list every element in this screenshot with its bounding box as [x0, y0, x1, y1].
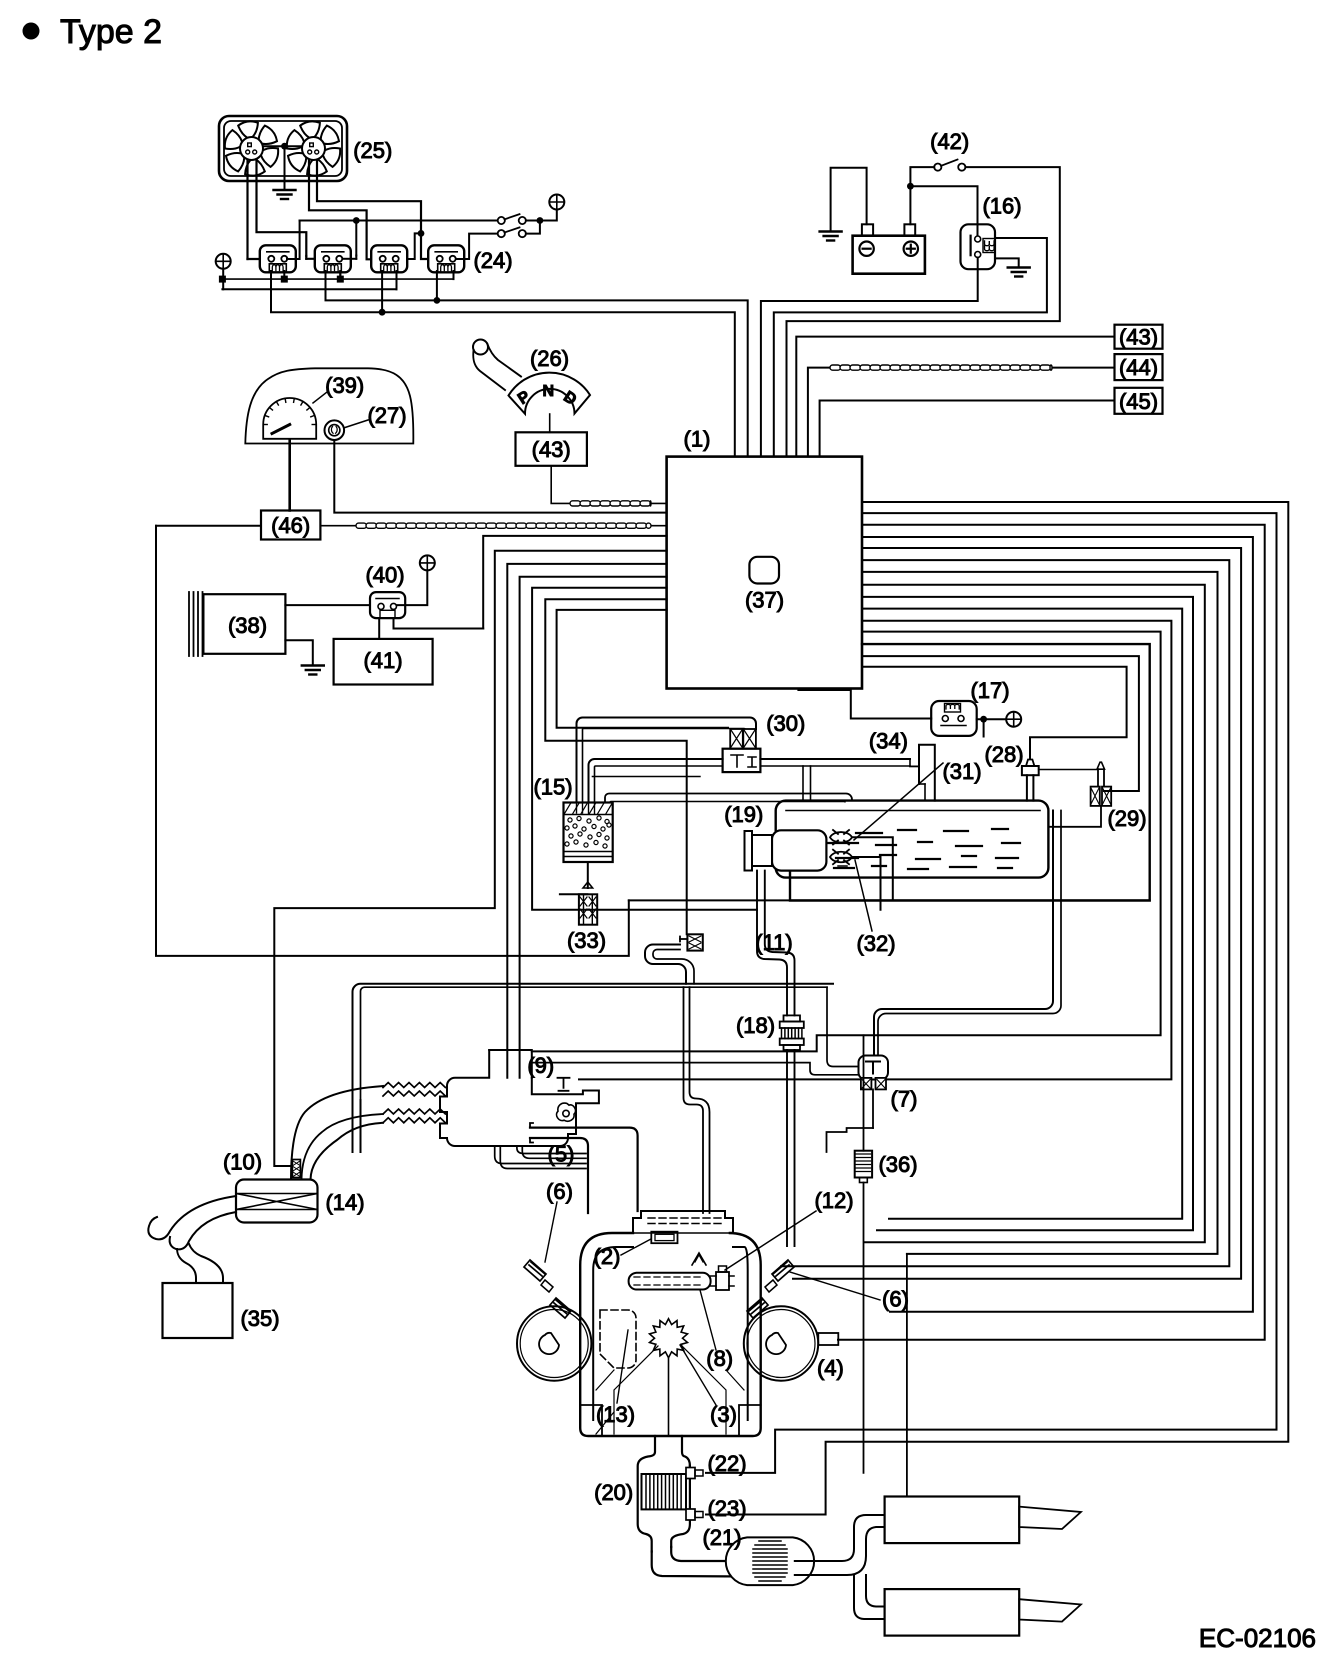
switch blade upper — [505, 214, 520, 219]
wire ECU to air cleaner a — [507, 564, 666, 1078]
wire fan C — [309, 160, 380, 259]
IAC T symbol — [558, 1078, 570, 1091]
throttle duct (5) and downpipe — [576, 1128, 638, 1211]
fuel pump outlet pipe to filter 18 — [757, 871, 787, 1016]
junction square a — [219, 276, 226, 283]
small gauge (27) — [325, 420, 345, 440]
svg-text:(11): (11) — [755, 930, 793, 955]
relay 2 — [315, 245, 351, 272]
connector top right — [549, 195, 564, 210]
wire relay17 to connector — [977, 718, 1006, 720]
svg-text:(40): (40) — [365, 563, 404, 588]
relay 16 pin top — [975, 236, 981, 242]
svg-text:(2): (2) — [594, 1244, 621, 1269]
fuel level dashes — [806, 829, 1020, 869]
engine inner runner left — [593, 1247, 748, 1420]
left cam pulley — [517, 1306, 591, 1380]
wire connector drop — [222, 269, 224, 289]
switch blade lower — [505, 227, 520, 232]
junction fan D — [418, 230, 425, 237]
wire 36 up — [863, 1035, 865, 1150]
bus line 4 y=312.2 — [271, 271, 735, 457]
svg-text:(32): (32) — [856, 931, 895, 956]
switch contact pair lower — [498, 230, 505, 237]
wire relay16 coil right to ECU — [774, 238, 1047, 457]
radiator fan assembly (25) — [219, 116, 347, 181]
wire fan ground drop — [284, 146, 286, 189]
wire ECU wrap to solenoid 28 — [862, 667, 1127, 759]
relay 4 — [428, 245, 464, 272]
svg-text:(44): (44) — [1119, 355, 1158, 380]
battery plus terminal — [904, 242, 918, 256]
wire switch upper out — [526, 220, 553, 222]
relay (16) — [961, 224, 996, 269]
wire ECU nest 8 — [862, 585, 1205, 1242]
harness chain 46 — [356, 523, 651, 528]
svg-text:(15): (15) — [533, 775, 572, 800]
fuel hose S from 11 — [645, 945, 686, 984]
relay 16 pin bottom — [975, 252, 981, 258]
intake snorkel from 14 — [148, 1196, 236, 1239]
svg-text:(37): (37) — [745, 588, 784, 613]
box (43) console — [516, 432, 587, 466]
battery — [853, 236, 925, 274]
svg-text:(34): (34) — [869, 729, 908, 754]
wire to connector top right — [553, 210, 557, 221]
wire ECU to purge valve 30 — [557, 610, 728, 728]
resonator (21) — [736, 1537, 806, 1596]
purge line canister to injector 33 — [587, 862, 589, 888]
O2 sensor (22) — [686, 1468, 695, 1479]
shift lever (26) — [473, 340, 488, 355]
wire ECU to fuel pump — [790, 644, 1150, 900]
svg-text:(12): (12) — [814, 1188, 853, 1213]
svg-text:(42): (42) — [930, 129, 969, 154]
box (46) — [261, 511, 320, 540]
fuel rail supply pipe — [353, 984, 834, 1100]
spark plug upper right (6) — [772, 1260, 794, 1281]
pointer 31 — [854, 763, 943, 840]
wire branch to relay3 right pin — [401, 233, 421, 259]
svg-text:(45): (45) — [1119, 389, 1158, 414]
wire ECU to valve 7 line — [579, 621, 1171, 1080]
pointer 3 — [680, 1345, 716, 1405]
wire 36 to O2 22 — [863, 1183, 865, 1473]
wire ECU to relay 17 — [798, 689, 931, 719]
engine foot right — [739, 1405, 761, 1436]
speedometer (39) — [263, 398, 316, 439]
wire to relay2 right pin — [355, 221, 357, 256]
wire to box 44 — [808, 368, 1115, 457]
wire ECU nest 6 — [781, 560, 1229, 1266]
relay 17 pin right — [958, 716, 964, 722]
wire relay4 right pin to switch 2 — [456, 234, 498, 259]
svg-text:(39): (39) — [325, 373, 364, 398]
svg-text:(29): (29) — [1107, 806, 1146, 831]
svg-text:(6): (6) — [882, 1287, 909, 1312]
svg-text:(16): (16) — [982, 194, 1021, 219]
tailpipe upper — [1019, 1507, 1081, 1529]
junction relay17 — [980, 716, 987, 723]
svg-text:(41): (41) — [363, 648, 402, 673]
bus line 3 y=300.4 — [326, 271, 748, 457]
junction relay4 bus3 — [434, 297, 441, 304]
wire switch lower out — [526, 222, 540, 234]
bus line 1 y=279 — [222, 278, 453, 280]
bus line 2 y=289.3 — [222, 288, 396, 290]
connector 11 nub — [680, 938, 687, 940]
wire switch feed line — [300, 220, 498, 222]
ground fan — [274, 190, 296, 199]
relay 17 pin left — [942, 716, 948, 722]
wire relay40 to 41 — [378, 618, 380, 639]
relay 16 contact bar — [969, 236, 971, 256]
svg-text:(9): (9) — [527, 1053, 554, 1078]
pipe to engine left — [353, 1100, 361, 1152]
wire battery plus to switch 42 — [910, 167, 934, 224]
spark plug lower left — [550, 1298, 571, 1318]
air cleaner outlet pipes — [495, 1146, 586, 1164]
svg-text:(6): (6) — [546, 1179, 573, 1204]
wire pump feed horizontal — [629, 899, 1150, 901]
wire relay16 bottom pin to ECU — [761, 258, 978, 457]
pointer 8 — [700, 1290, 716, 1350]
wire ECU nest 10 — [862, 609, 1182, 1219]
check valve (31) — [830, 830, 852, 845]
wire 46 left — [156, 525, 261, 527]
air horn neck — [177, 1249, 196, 1283]
spark plug upper left (6) — [524, 1260, 546, 1281]
wire O2 23 up — [906, 1254, 908, 1497]
svg-text:(22): (22) — [707, 1451, 746, 1476]
fuel filter (18) — [780, 1022, 804, 1029]
svg-text:(30): (30) — [766, 711, 805, 736]
fuel pipe filter to rail b — [794, 1050, 796, 1246]
wire 29 stub — [1048, 806, 1101, 827]
box (35) — [163, 1283, 233, 1338]
fuel pump (19) — [772, 830, 826, 870]
stub relay17 — [983, 719, 985, 736]
wire ECU to air cleaner b — [520, 577, 667, 1078]
wire relay1 coil right — [283, 271, 285, 279]
switch 42 blade — [941, 160, 958, 166]
box (44) right — [1115, 354, 1163, 380]
wire to box 43 — [796, 337, 1114, 457]
cylinder detail left — [596, 1346, 658, 1434]
box (43) right — [1115, 325, 1163, 349]
junction switch line — [353, 217, 360, 224]
svg-text:(25): (25) — [353, 138, 392, 163]
pointer 27 — [345, 420, 368, 428]
svg-text:(26): (26) — [530, 346, 569, 371]
box (41) — [334, 639, 433, 685]
check valve (32) — [830, 850, 852, 865]
pointer 6 left — [545, 1202, 557, 1262]
fuel rail — [629, 1273, 711, 1290]
svg-text:(38): (38) — [228, 613, 267, 638]
wire relay1 right pin to switch line — [287, 221, 300, 260]
wire 46 right to ECU — [320, 525, 666, 527]
svg-text:(36): (36) — [878, 1152, 917, 1177]
pointer 12 — [725, 1211, 816, 1270]
wire fan B — [257, 160, 307, 256]
pipe cat to resonator — [652, 1552, 748, 1577]
svg-text:D: D — [560, 388, 579, 409]
canister pipe stubs inside — [577, 803, 595, 815]
wire relay16 to ground — [995, 258, 1019, 266]
canister pipe right (P3) — [605, 794, 852, 803]
canister aux line — [592, 776, 700, 778]
wire to box 45 — [820, 401, 1115, 457]
pipe Y lower branch — [866, 1575, 885, 1607]
svg-text:(43): (43) — [1119, 325, 1158, 350]
purge solenoid valve (30) — [723, 749, 761, 772]
muffler lower — [885, 1589, 1020, 1636]
wire connector to relay40 — [397, 570, 428, 605]
junction square c — [337, 276, 344, 283]
wire loop from 46 — [156, 526, 629, 956]
fuel pipe to plenum a — [684, 987, 704, 1213]
left fan — [225, 121, 278, 175]
wire ECU to sensor 29 — [862, 656, 1139, 791]
svg-text:(46): (46) — [271, 513, 310, 538]
left valve cover dashed — [600, 1310, 636, 1368]
bullet — [23, 23, 40, 40]
exhaust downpipe — [638, 1436, 655, 1552]
left pulley teardrop — [539, 1333, 559, 1354]
wire to relay 16 top pin — [910, 186, 977, 235]
svg-text:(3): (3) — [710, 1402, 737, 1427]
engine foot left — [580, 1405, 602, 1436]
wire 28 to 29 — [1039, 769, 1097, 771]
solenoid (28) — [1027, 775, 1034, 800]
O2 sensor (23) — [686, 1509, 695, 1520]
sensor (2) — [651, 1232, 677, 1244]
wire speedo to 46 — [288, 440, 291, 511]
wire relay3 coil left — [381, 271, 383, 312]
ground battery — [820, 232, 842, 241]
pipe 30 to filler (34) — [760, 758, 910, 760]
svg-text:(19): (19) — [724, 802, 763, 827]
svg-text:(10): (10) — [223, 1150, 262, 1175]
pointer 2 — [621, 1239, 651, 1255]
box (45) right — [1115, 388, 1163, 414]
wire ECU to O2 sensor 23 — [706, 502, 1288, 1515]
svg-text:(27): (27) — [367, 403, 406, 428]
air cleaner (9) upper box — [489, 1050, 532, 1078]
svg-text:(1): (1) — [684, 427, 711, 452]
relay (17) — [931, 701, 977, 736]
wire ECU nest 4 — [862, 537, 1253, 1312]
wire ECU nest 7 — [862, 572, 1218, 1254]
ECU box (1) — [667, 457, 862, 689]
battery minus terminal — [859, 242, 873, 256]
svg-text:(5): (5) — [548, 1142, 575, 1167]
harness chain 43 — [570, 501, 651, 506]
valve 7 T — [866, 1062, 880, 1074]
junction fan link — [281, 143, 288, 150]
sensor (36) — [855, 1151, 872, 1178]
canister (15) — [564, 803, 613, 863]
corrugated hose lower — [383, 1109, 446, 1114]
wire relay3 coil right — [396, 271, 398, 289]
svg-text:N: N — [543, 383, 555, 400]
sensor (29) — [1098, 769, 1104, 786]
svg-text:(33): (33) — [567, 928, 606, 953]
wire ECU to fuel pump left — [532, 588, 757, 910]
muffler upper — [885, 1497, 1020, 1544]
wire relay40 right branch — [394, 618, 484, 629]
relay 16 coil — [985, 241, 995, 251]
harness chain 44 — [830, 365, 1052, 370]
injector (33) — [583, 882, 593, 888]
tank vent branch — [802, 766, 804, 801]
relay bank (24) : relay 1 — [260, 245, 296, 272]
corrugated hose upper — [383, 1083, 446, 1088]
pointer 6 right — [790, 1272, 880, 1300]
fuel filler pipe (34) — [919, 745, 935, 801]
wire relay2 coil right — [339, 271, 341, 279]
rail pipe to valve 7 — [827, 987, 859, 1066]
junction relay3 bus4 — [379, 309, 386, 316]
switch 42-like contact pair upper — [498, 217, 505, 224]
wire ECU to sensor 4 — [838, 525, 1265, 1340]
resonator (14) — [236, 1180, 318, 1223]
canister pipe left (P1) — [577, 718, 757, 803]
tank inner top — [786, 810, 1040, 812]
air temp sensor (10) hatch — [292, 1160, 300, 1178]
wire fan D — [317, 160, 435, 259]
svg-text:(4): (4) — [817, 1356, 844, 1381]
wire fan hub link — [263, 145, 302, 147]
wire battery minus to ground — [831, 168, 867, 231]
wire ECU to sensor 10 — [274, 551, 666, 1166]
valve 7 bottom wire — [872, 1089, 874, 1128]
svg-text:(24): (24) — [473, 248, 512, 273]
ground relay16 — [1008, 268, 1030, 277]
wire ECU to relay40 branch — [483, 536, 666, 629]
svg-text:(17): (17) — [970, 678, 1009, 703]
injector 33 T-bar — [560, 893, 587, 895]
manifold dashes — [648, 1218, 725, 1224]
connector 17 — [1006, 712, 1021, 727]
fuel tank — [776, 801, 1049, 878]
connector left of relays — [216, 254, 231, 269]
wire switch 42 to ECU — [787, 167, 1060, 457]
relay 17 coil — [946, 704, 959, 709]
intake elbow — [291, 1086, 383, 1180]
svg-text:(35): (35) — [240, 1306, 279, 1331]
engine outline — [580, 1233, 761, 1436]
air line throttle to valve 7 lower — [532, 1063, 859, 1075]
fuel pipe filter to rail a — [786, 1050, 788, 1246]
catalytic converter (20) — [671, 1466, 690, 1547]
PND arc — [509, 373, 591, 414]
fuel pipe connector (11) — [687, 934, 702, 950]
wire gauge 27 to ECU — [334, 441, 666, 513]
svg-text:(20): (20) — [594, 1480, 633, 1505]
relay (40) — [370, 592, 405, 618]
wire ECU nest 12 — [532, 632, 1161, 1052]
speedometer ticks — [263, 398, 316, 424]
relay 3 — [371, 245, 407, 272]
ground 38 — [302, 666, 324, 675]
svg-text:EC-02106: EC-02106 — [1199, 1623, 1316, 1653]
fuel pipe to plenum b — [690, 987, 710, 1213]
wire ECU to connector 11 — [545, 599, 686, 934]
component (38) — [203, 594, 285, 654]
wire fan A — [246, 160, 248, 259]
IAC valve — [557, 1103, 576, 1121]
svg-text:(7): (7) — [891, 1087, 918, 1112]
right cam pulley — [744, 1306, 818, 1380]
svg-text:(31): (31) — [942, 759, 981, 784]
wire relay4 coil left — [436, 271, 438, 300]
wire check valve 31 down — [852, 837, 893, 900]
right fan — [287, 121, 340, 175]
pipe tank to valve 7 — [874, 811, 1053, 1056]
engine centerline — [668, 1357, 670, 1436]
svg-text:(14): (14) — [325, 1190, 364, 1215]
wire ECU nest 9 — [862, 597, 1193, 1230]
junction square b — [281, 276, 288, 283]
check connector (37) — [749, 557, 779, 584]
injector (12) — [716, 1272, 729, 1290]
EGR marker — [692, 1253, 706, 1265]
speedometer needle — [272, 425, 290, 434]
air cleaner (9) body — [440, 1050, 576, 1146]
pointer 13 — [617, 1330, 628, 1403]
instrument cluster outline — [245, 368, 413, 443]
wire 38 to ground — [285, 640, 312, 664]
svg-text:(21): (21) — [702, 1525, 741, 1550]
pointer 39 — [313, 392, 327, 403]
crank sprocket — [650, 1319, 688, 1358]
wire check valve 32 down — [852, 857, 881, 910]
canister pipe middle (P2) — [589, 759, 723, 803]
cylinder detail right — [682, 1346, 744, 1434]
svg-text:(18): (18) — [736, 1013, 775, 1038]
pipe resonator to Y upper branch — [795, 1515, 885, 1561]
spark plug lower right — [747, 1298, 768, 1318]
wire 38 to 40 — [285, 604, 370, 606]
svg-text:Type 2: Type 2 — [60, 13, 162, 51]
wire PND to 43 — [549, 414, 551, 432]
pointer 32 — [855, 860, 872, 931]
connector 40 — [420, 555, 435, 570]
switch (42) — [934, 164, 941, 171]
svg-text:(23): (23) — [707, 1496, 746, 1521]
wire relay4 coil right — [453, 271, 455, 279]
plenum hat — [633, 1211, 733, 1233]
junction switch out — [537, 217, 544, 224]
solenoid valve (7) — [859, 1056, 889, 1080]
wire 43 to ECU — [551, 466, 666, 504]
svg-text:(8): (8) — [706, 1346, 733, 1371]
svg-text:(28): (28) — [984, 742, 1023, 767]
wire ECU to O2 sensor 22 — [706, 513, 1277, 1473]
right pulley teardrop — [766, 1333, 786, 1354]
junction battery plus — [907, 183, 914, 190]
knock sensor (4) — [818, 1333, 838, 1345]
wire ECU nest 5 — [793, 548, 1241, 1279]
svg-text:(43): (43) — [532, 437, 571, 462]
tailpipe lower — [1019, 1599, 1081, 1621]
